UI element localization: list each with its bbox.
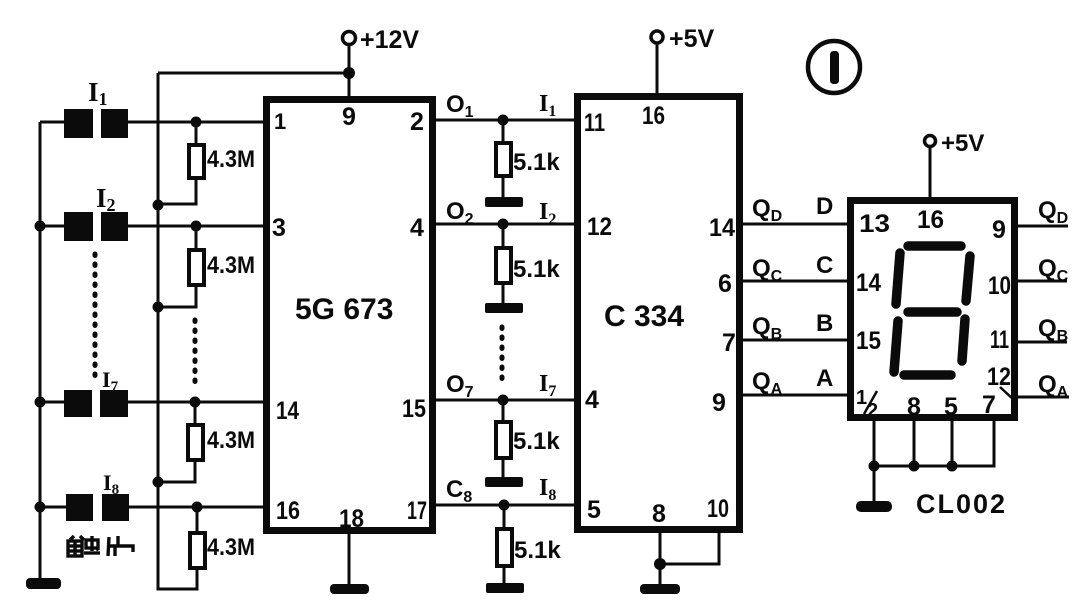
ellipsis O rows	[500, 327, 505, 386]
resistor R3 4.3M	[158, 402, 255, 482]
svg-text:12: 12	[987, 363, 1011, 391]
wire left common rail	[39, 122, 42, 578]
wire I2 row to pin 3	[128, 225, 265, 228]
svg-text:8: 8	[652, 500, 666, 528]
svg-text:15: 15	[856, 327, 881, 355]
wire QC out	[1014, 280, 1067, 283]
resistor R1 4.3M	[158, 122, 255, 204]
node junction left rail I7	[35, 397, 46, 408]
svg-text:1: 1	[274, 109, 286, 134]
svg-text:B: B	[816, 310, 833, 337]
svg-text:CL002: CL002	[916, 489, 1007, 519]
node junction rail/R1	[153, 200, 164, 211]
node junction pin8/pin10	[654, 558, 666, 570]
touch pad I8	[40, 470, 129, 521]
svg-text:12: 12	[587, 213, 612, 241]
ground C334	[640, 584, 680, 594]
svg-text:+12V: +12V	[360, 26, 419, 54]
figure label I	[808, 41, 860, 93]
wire O7 row	[433, 399, 577, 402]
svg-text:16: 16	[917, 206, 944, 234]
svg-text:5: 5	[944, 393, 958, 421]
svg-text:9: 9	[992, 216, 1006, 244]
segment F	[896, 253, 900, 304]
wire I1 row to pin 1	[128, 121, 265, 124]
svg-text:18: 18	[339, 505, 364, 533]
svg-text:9: 9	[342, 103, 356, 131]
svg-text:5.1k: 5.1k	[513, 428, 560, 455]
label touch pads 触片	[68, 536, 133, 556]
wire QB to display	[740, 339, 850, 342]
svg-text:15: 15	[402, 395, 426, 423]
wire bus to ground	[873, 466, 876, 503]
svg-text:C: C	[816, 252, 833, 279]
svg-text:4.3M: 4.3M	[207, 252, 255, 279]
display U3 CL002 box	[851, 201, 1015, 418]
pin 1/2	[856, 387, 878, 422]
ground display	[856, 501, 892, 512]
wire O8 row	[433, 504, 577, 507]
node junction rail/R3	[153, 477, 164, 488]
resistor R6 5.1k	[496, 224, 560, 305]
segment E	[894, 321, 898, 372]
svg-text:6: 6	[718, 270, 732, 298]
wire pin 10 loop	[660, 527, 719, 564]
svg-text:2: 2	[410, 108, 424, 136]
power +5V terminal C334	[651, 25, 715, 96]
svg-text:8: 8	[907, 393, 921, 421]
svg-text:14: 14	[709, 214, 735, 242]
node junction I2/R2	[191, 221, 202, 232]
svg-text:14: 14	[856, 269, 881, 297]
svg-text:3: 3	[272, 214, 286, 242]
touch pad I2	[40, 183, 128, 241]
segment A	[908, 241, 961, 251]
segment C	[962, 319, 965, 361]
ground R7	[485, 477, 523, 487]
svg-text:4.3M: 4.3M	[207, 146, 255, 173]
seven segment digit	[894, 246, 970, 375]
wire I7 row to pin 14	[128, 401, 265, 404]
segment D	[904, 370, 951, 380]
svg-text:5.1k: 5.1k	[513, 256, 560, 283]
resistor R2 4.3M	[158, 226, 255, 307]
svg-text:A: A	[816, 365, 833, 392]
wire QB out	[1014, 341, 1067, 344]
wire +12V rail	[158, 73, 197, 589]
wire QC to display	[740, 280, 850, 283]
node junction rail/R2	[153, 302, 164, 313]
svg-text:5: 5	[587, 496, 601, 524]
svg-text:14: 14	[276, 397, 299, 425]
segment B	[966, 256, 970, 301]
ellipsis between resistors	[193, 320, 198, 388]
resistor R4 4.3M	[190, 507, 255, 568]
svg-text:4: 4	[410, 214, 424, 242]
segment G	[908, 307, 957, 317]
svg-text:1: 1	[856, 387, 867, 409]
node junctions bottom bus	[869, 461, 880, 472]
node junction O7	[498, 395, 509, 406]
svg-text:16: 16	[276, 497, 300, 525]
svg-text:4.3M: 4.3M	[207, 427, 255, 454]
node junction I8/R4	[192, 502, 203, 513]
ground R8	[486, 583, 524, 593]
svg-text:D: D	[816, 193, 833, 220]
svg-text:4: 4	[585, 386, 599, 414]
node junction I1/R1	[191, 117, 202, 128]
wire QA to display	[740, 394, 850, 397]
resistor R5 5.1k	[496, 120, 560, 199]
power +5V terminal display	[925, 130, 985, 199]
svg-text:13: 13	[859, 210, 890, 238]
node junction left rail I8	[35, 502, 46, 513]
svg-text:7: 7	[722, 329, 736, 357]
IC U1 5G673 box	[267, 100, 433, 531]
node junction I7/R3	[190, 397, 201, 408]
node junction left rail I2	[35, 221, 46, 232]
touch pad I7	[40, 367, 128, 417]
touch pad I1	[40, 77, 128, 138]
svg-text:10: 10	[707, 495, 729, 523]
svg-text:17: 17	[407, 497, 427, 525]
wire O1 row	[433, 119, 577, 122]
node junction +12V	[343, 67, 355, 79]
ellipsis between pads	[93, 254, 98, 380]
svg-text:5.1k: 5.1k	[513, 149, 560, 176]
svg-text:5G 673: 5G 673	[295, 293, 393, 326]
svg-text:11: 11	[990, 326, 1009, 354]
svg-text:9: 9	[712, 389, 726, 417]
resistor R7 5.1k	[496, 400, 560, 479]
power +12V terminal	[343, 26, 420, 97]
svg-text:16: 16	[642, 102, 665, 130]
ground left rail	[26, 578, 61, 589]
ground R5	[485, 197, 523, 207]
wire QD to display	[740, 223, 850, 226]
svg-text:5.1k: 5.1k	[514, 537, 561, 564]
svg-text:11: 11	[584, 109, 605, 137]
leader pin12	[1000, 387, 1014, 400]
wire QA out	[1014, 396, 1069, 399]
svg-text:C 334: C 334	[604, 300, 684, 333]
ground pin 18	[330, 584, 369, 594]
wire pin 8 to ground	[659, 527, 662, 586]
wire pin 18 to ground	[348, 527, 351, 586]
svg-text:10: 10	[988, 272, 1011, 300]
svg-text:+5V: +5V	[669, 25, 715, 53]
ground R6	[485, 303, 523, 313]
IC U2 C334 box	[578, 97, 740, 530]
wire QD out	[1014, 225, 1068, 228]
resistor R8 5.1k	[497, 505, 561, 585]
node junction O8	[499, 500, 510, 511]
node junction O1	[498, 115, 509, 126]
svg-text:7: 7	[982, 391, 996, 419]
wire I8 row to pin 16	[129, 506, 265, 509]
svg-text:+5V: +5V	[941, 130, 984, 157]
wire O2 row	[433, 223, 577, 226]
wire +12V top feed	[158, 72, 349, 75]
node junction O2	[498, 219, 509, 230]
wire display bottom pins	[874, 418, 994, 466]
svg-text:4.3M: 4.3M	[207, 534, 255, 561]
